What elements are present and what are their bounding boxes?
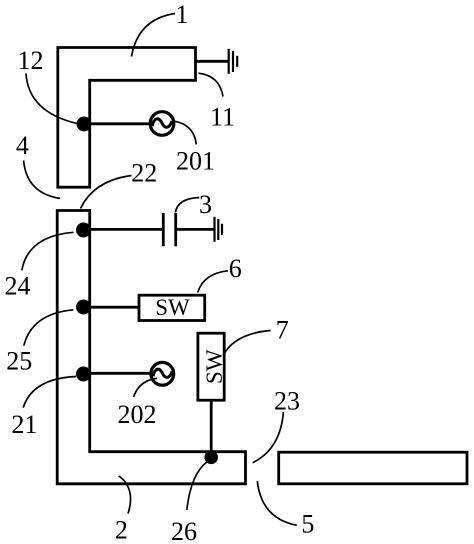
node 12 [77,117,92,132]
parasitic L-conductor 22/2 [57,211,245,484]
leader line for label 2 [119,476,131,514]
leader line for label 4 [24,160,60,198]
svg-text:11: 11 [210,103,235,132]
conductor bar 5 [279,452,467,484]
radiator bar 1 with arm 4 (inverted-L conductor) [58,48,196,188]
leader line for label 7 [223,331,270,356]
svg-text:7: 7 [276,316,289,345]
node 26 [204,451,218,465]
AC source 202 [151,362,174,385]
wire switch 7 to node 26 [210,400,213,455]
svg-text:12: 12 [18,46,44,75]
ground of capacitor 3 [215,217,223,242]
leader line for label 6 [198,271,228,293]
leader line for label 201 [175,121,196,144]
leader line for label 5 [257,481,297,525]
node 21 [76,367,91,382]
svg-text:202: 202 [118,400,157,429]
svg-text:201: 201 [176,146,215,175]
svg-text:24: 24 [5,271,31,300]
svg-text:SW: SW [155,295,190,320]
AC source 201 [150,112,174,136]
svg-text:5: 5 [301,510,314,539]
leader line for label 22 [81,176,132,209]
svg-text:26: 26 [171,517,197,544]
switch SW 6 [139,295,205,321]
leader line for label 11 [198,73,223,96]
svg-text:6: 6 [229,254,242,283]
ground 11 [229,49,238,74]
capacitor C3 [163,213,175,246]
svg-text:3: 3 [199,190,212,219]
node 24 [76,223,91,238]
leader line for label 202 [134,378,157,397]
svg-text:21: 21 [11,410,37,439]
svg-text:22: 22 [131,158,157,187]
svg-text:25: 25 [6,347,32,376]
leader line for label 12 [26,74,77,124]
wire capacitor 3 to ground [176,228,214,231]
leader line for label 25 [24,310,74,346]
wire node 21 to source 202 [90,372,151,375]
wire node 12 to source 201 [90,122,150,125]
wire node 25 to switch 6 [90,306,139,309]
leader line for label 24 [22,232,74,270]
svg-text:23: 23 [274,387,300,416]
leader line for label 26 [187,462,208,510]
svg-text:2: 2 [115,516,128,544]
svg-text:4: 4 [16,131,29,160]
leader line for label 21 [23,377,76,408]
wire bar1 to ground 11 [196,60,228,63]
svg-text:1: 1 [176,0,189,29]
leader line for label 23 [253,412,284,463]
leader line for label 1 [132,14,176,57]
wire node 24 to capacitor 3 [90,228,162,231]
node 25 [76,300,91,315]
leader line for label 3 [175,198,199,213]
switch SW 7 [198,333,227,400]
